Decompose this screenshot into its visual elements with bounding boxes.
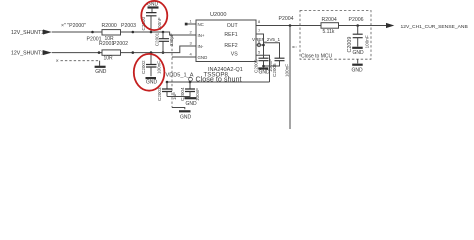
wire REF tee to C2006 <box>264 43 280 59</box>
svg-text:OUT: OUT <box>227 23 239 29</box>
svg-text:GND: GND <box>259 70 271 76</box>
svg-text:IN+: IN+ <box>198 33 205 38</box>
svg-text:Close to MCU: Close to MCU <box>301 53 333 59</box>
svg-text:GND: GND <box>146 80 158 86</box>
resistor R2004 <box>321 17 339 35</box>
wire bottom rail <box>52 46 196 53</box>
capacitor C2005 <box>254 58 273 73</box>
pin 8 OUT <box>227 19 261 29</box>
svg-text:×" "P2000": ×" "P2000" <box>61 23 86 29</box>
svg-text:R2004: R2004 <box>322 17 337 23</box>
pin 4 GND <box>172 51 207 60</box>
svg-text:P2004: P2004 <box>279 16 294 22</box>
pin 1 NC (no connect) <box>185 18 204 27</box>
wire top rail <box>52 32 196 35</box>
svg-text:12V_CH1_CUR_SENSE_ANB: 12V_CH1_CUR_SENSE_ANB <box>401 24 469 30</box>
ground (for C2002) <box>146 78 158 86</box>
ground (pin 4) <box>179 111 192 120</box>
capacitor C2004 <box>180 81 200 101</box>
svg-text:NC: NC <box>198 22 204 27</box>
pin 2 IN+ <box>190 29 205 38</box>
net 12V_SHUNT1+ <box>11 30 52 37</box>
capacitor C2003 <box>157 81 177 101</box>
svg-text:R2000: R2000 <box>102 23 117 29</box>
svg-text:GND: GND <box>95 69 107 75</box>
svg-text:GND: GND <box>180 114 192 120</box>
off sheet tick <box>292 46 296 48</box>
svg-text:12V_SHUNT1+: 12V_SHUNT1+ <box>11 30 47 36</box>
svg-text:C2003: C2003 <box>157 87 162 101</box>
svg-text:REF2: REF2 <box>224 43 237 49</box>
svg-text:U2000: U2000 <box>210 12 226 18</box>
node P2004 <box>279 16 294 27</box>
svg-text:VS: VS <box>231 52 238 58</box>
node circle (REF tie) <box>257 43 260 46</box>
wire OUT <box>256 25 386 27</box>
ground (below box) <box>352 59 364 73</box>
svg-text:C2004: C2004 <box>180 87 185 101</box>
note: Close to shunt <box>189 74 242 83</box>
wire cap commons <box>167 96 190 98</box>
op-amp U2000 (INA240A2-Q1) <box>196 12 256 62</box>
ground (top, for C2000) <box>147 1 159 32</box>
svg-text:VREF_2V5_1: VREF_2V5_1 <box>252 37 281 42</box>
node P2006 <box>349 17 364 27</box>
node P2003 <box>121 23 136 33</box>
svg-text:GND: GND <box>352 68 364 74</box>
node P2002 <box>113 41 134 54</box>
capacitor C2001 (differential) <box>154 31 174 54</box>
net 12V_CH1_CUR_SENSE_ANB <box>386 23 468 30</box>
svg-text:5.11k: 5.11k <box>323 29 335 35</box>
ground (REF caps) <box>258 69 270 76</box>
wire OUT sense drop <box>289 26 291 130</box>
svg-text:C2006: C2006 <box>272 63 277 77</box>
wire VDD5 rail <box>166 81 270 83</box>
dashed box Close to MCU <box>300 11 371 60</box>
svg-text:P2002: P2002 <box>113 41 128 47</box>
optional ground strap (dashed, DNP) <box>56 58 100 66</box>
capacitor C2000 <box>141 13 162 34</box>
svg-text:100nF: 100nF <box>157 61 162 74</box>
svg-text:1uF: 1uF <box>172 92 177 100</box>
svg-text:IN-: IN- <box>198 44 204 49</box>
wire REF2 <box>256 44 264 46</box>
pin 5 VS <box>231 49 261 57</box>
svg-text:330pF: 330pF <box>169 33 174 46</box>
wire pin4 gnd tail <box>172 108 185 110</box>
svg-text:100nF: 100nF <box>284 64 289 77</box>
svg-text:GND: GND <box>186 101 198 107</box>
svg-text:×: × <box>56 58 59 64</box>
net 12V_SHUNT1- <box>11 50 52 57</box>
ground (C2009) <box>352 48 364 56</box>
ground (for strap) <box>95 67 107 75</box>
svg-text:P2006: P2006 <box>349 17 364 23</box>
svg-text:C2002: C2002 <box>141 60 146 74</box>
resistor R2001 <box>99 41 121 61</box>
node P2000 <box>61 23 94 34</box>
svg-text:REF1: REF1 <box>224 32 237 38</box>
annotation red ellipse (bottom) <box>134 54 165 91</box>
pin 6 REF2 <box>224 39 261 49</box>
svg-text:GND: GND <box>353 50 365 56</box>
svg-text:12V_SHUNT1-: 12V_SHUNT1- <box>11 51 46 57</box>
pin 7 REF1 <box>224 28 261 38</box>
wire VS pin <box>256 55 270 82</box>
node P2001 <box>87 36 102 54</box>
svg-text:P2003: P2003 <box>121 23 136 29</box>
capacitor C2009 <box>347 26 370 53</box>
capacitor C2006 <box>262 58 289 77</box>
svg-text:GND: GND <box>198 55 208 60</box>
capacitor C2002 <box>141 51 162 76</box>
resistor R2000 <box>102 23 121 42</box>
dashed boundary line <box>171 36 173 108</box>
svg-text:100nF: 100nF <box>365 35 370 48</box>
pin 3 IN- <box>190 40 204 49</box>
wire REF1 <box>256 34 264 58</box>
annotation red ellipse (top) <box>141 1 167 30</box>
svg-text:10R: 10R <box>104 55 114 61</box>
svg-text:C2001: C2001 <box>154 32 159 46</box>
ground (IC local) <box>185 98 198 107</box>
